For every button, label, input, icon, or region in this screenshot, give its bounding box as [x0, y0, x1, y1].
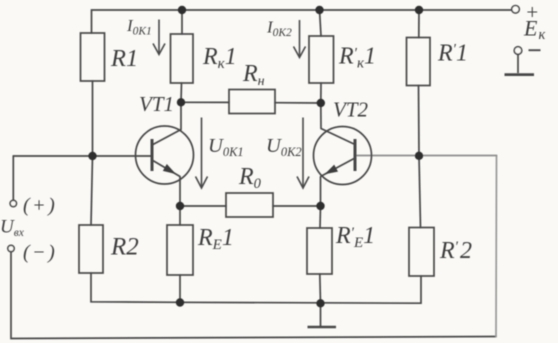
wire R2 top lead — [91, 156, 93, 225]
svg-text:VT2: VT2 — [333, 98, 369, 122]
wire input minus lead — [11, 252, 496, 339]
wire R0 right lead — [273, 205, 321, 207]
resistor Rn — [229, 90, 275, 114]
wire Rp1 bottom lead — [418, 86, 421, 156]
resistor R1 — [81, 33, 105, 81]
node VT2 collector — [317, 99, 325, 107]
wire R1 bottom lead — [92, 81, 94, 156]
node VT2 base divider — [415, 152, 423, 160]
svg-text:U0К1: U0К1 — [208, 135, 244, 159]
node VT2 emitter — [316, 202, 324, 210]
resistor RpK1 — [309, 36, 334, 83]
resistor RK1 — [171, 34, 194, 83]
wire RE1 top lead — [179, 206, 181, 225]
wire VT2 collector — [320, 103, 322, 129]
node RK1 top — [178, 6, 186, 14]
Ek minus common bar — [505, 54, 535, 74]
wire VT1 base — [13, 155, 152, 157]
wire right rail — [495, 156, 498, 337]
terminal input minus — [8, 245, 14, 251]
node ground junction — [316, 299, 324, 307]
ground lead — [320, 303, 322, 326]
svg-text:(+): (+) — [23, 195, 57, 217]
node R2 RE1 junction — [176, 298, 184, 306]
svg-text:VT1: VT1 — [139, 92, 174, 116]
svg-text:RЕ1: RЕ1 — [197, 225, 234, 253]
svg-text:Rк1: Rк1 — [202, 44, 237, 72]
current arrow I0K1 — [158, 20, 160, 54]
wire RK1 bottom lead — [180, 83, 183, 102]
node VT1 base divider — [88, 152, 96, 160]
resistor Rp1 — [407, 38, 431, 86]
svg-text:R2: R2 — [110, 234, 139, 261]
voltage arrow U0K2 — [302, 118, 304, 188]
svg-text:R′1: R′1 — [437, 41, 468, 67]
svg-text:I0К2: I0К2 — [266, 18, 292, 40]
resistor Rp2 — [409, 228, 434, 277]
wire VT2 emitter lead — [320, 177, 322, 206]
svg-text:R1: R1 — [110, 45, 138, 72]
svg-text:I0К1: I0К1 — [126, 16, 152, 38]
terminal input plus — [10, 200, 16, 206]
label Ek minus sign — [529, 49, 541, 51]
resistor RpE1 — [307, 228, 332, 274]
wire RpE1 top lead — [319, 206, 322, 228]
wire RpK1 top lead — [320, 10, 322, 36]
svg-text:Rн: Rн — [242, 61, 265, 89]
svg-text:Uвх: Uвх — [0, 217, 25, 240]
svg-text:R′2: R′2 — [439, 238, 472, 264]
wire R2 bottom lead — [91, 273, 180, 302]
wire VT2 base — [355, 155, 497, 157]
wire emitter common rail — [180, 301, 419, 304]
terminal Ek plus — [512, 6, 520, 14]
wire Rp2 top lead — [419, 156, 421, 228]
transistor VT2 — [314, 127, 372, 185]
transistor VT1 — [136, 126, 194, 184]
ground — [308, 326, 337, 329]
wire Rn right lead — [275, 102, 321, 104]
wire input plus lead — [12, 156, 14, 200]
wire VT1 collector — [180, 102, 182, 129]
wire top rail — [92, 10, 513, 33]
svg-text:R′к1: R′к1 — [338, 44, 376, 72]
current arrow I0K2 — [299, 20, 301, 57]
node VT1 collector — [177, 98, 185, 106]
wire RpE1 bottom lead — [319, 274, 322, 303]
resistor R0 — [226, 193, 273, 217]
resistor R2 — [79, 225, 103, 273]
wire VT1 emitter lead — [179, 177, 181, 207]
svg-text:R0: R0 — [238, 164, 262, 192]
svg-text:U0К2: U0К2 — [266, 135, 302, 159]
wire Rn left lead — [181, 101, 229, 103]
terminal Ek minus — [514, 47, 522, 55]
wire RE1 bottom lead — [179, 275, 181, 302]
wire RK1 top lead — [181, 10, 183, 34]
node RpK1 top — [315, 6, 323, 14]
wire Rp2 bottom lead — [419, 276, 422, 303]
node VT1 emitter — [176, 202, 184, 210]
wire RpK1 bottom lead — [320, 83, 322, 103]
resistor RE1 — [167, 225, 193, 275]
svg-text:R′Е1: R′Е1 — [335, 223, 375, 251]
wire Rp1 top lead — [418, 10, 420, 38]
svg-text:(−): (−) — [23, 242, 57, 264]
wire R0 left lead — [180, 205, 226, 207]
voltage arrow U0K1 — [201, 118, 203, 188]
node Rp1 top — [415, 6, 423, 14]
svg-text:Eк: Eк — [523, 16, 545, 44]
